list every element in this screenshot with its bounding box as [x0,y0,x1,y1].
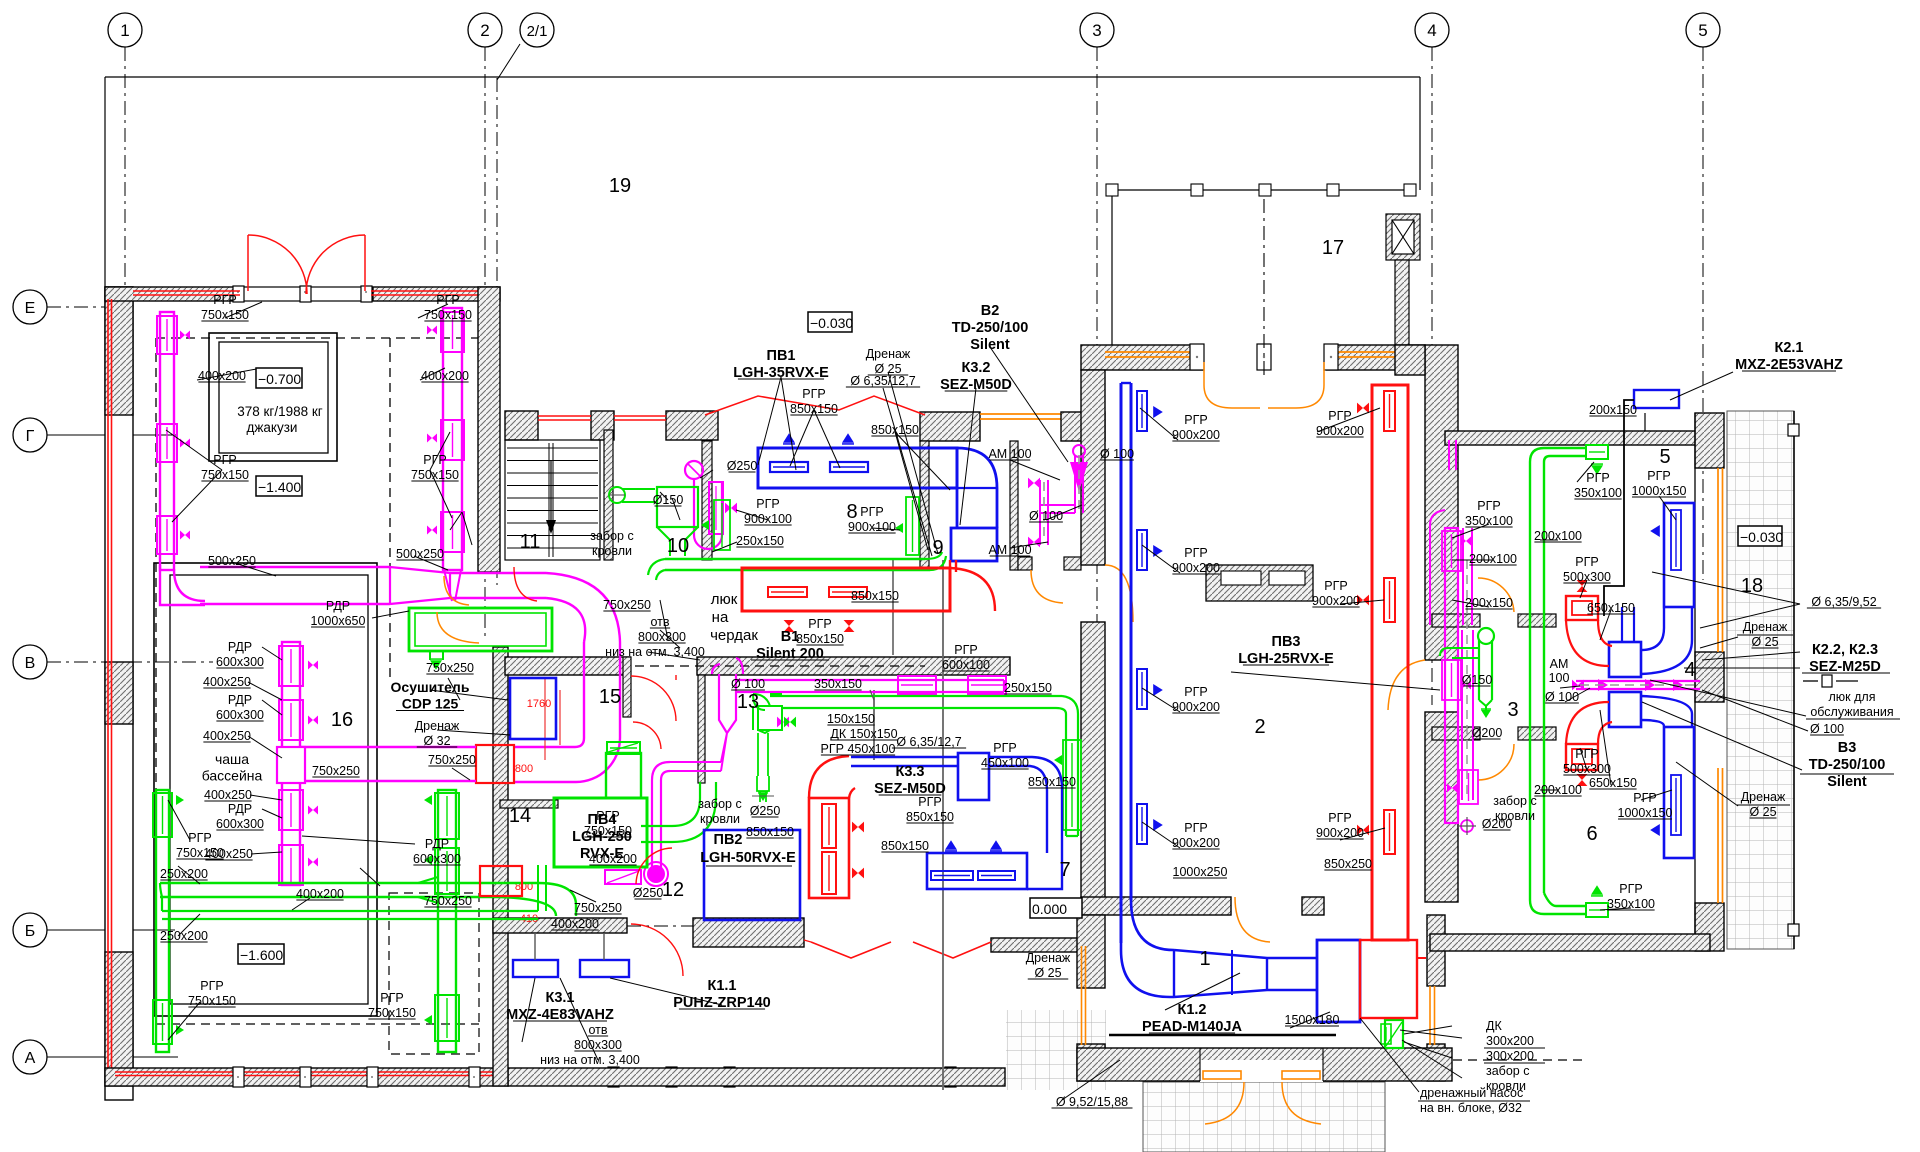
svg-text:Ø 25: Ø 25 [1034,966,1061,980]
green duct above ПВ4 [606,753,641,798]
svg-text:850x250: 850x250 [1324,857,1372,871]
hall right wall [1425,345,1458,660]
svg-text:ПВ4: ПВ4 [588,812,617,828]
magenta trunk elbow bottom left [160,565,205,605]
tiled terrace right [1727,411,1794,949]
room1 bottom wall band [1077,1048,1452,1081]
red door arc near wall 2/1 [514,567,537,601]
orange door arc corridor [1031,570,1063,603]
axis А [13,1040,47,1074]
fire damper red box on green [480,866,522,896]
svg-text:люк для: люк для [1829,690,1876,704]
svg-text:1500x180: 1500x180 [1285,1013,1340,1027]
svg-text:100: 100 [1549,671,1570,685]
svg-text:Дренаж: Дренаж [866,347,911,361]
magenta elbow to left [514,738,620,782]
svg-text:450x100: 450x100 [981,756,1029,770]
door opening dashdot [627,925,693,927]
fire damper red box 800 [476,745,514,783]
green left elbow room10 [648,559,665,580]
svg-text:1000x650: 1000x650 [311,614,366,628]
svg-text:Ø 25: Ø 25 [1751,635,1778,649]
right block interior walls [1432,614,1480,627]
blue outdoor units bottom K3.1 [513,960,558,977]
magenta trunk horizontal 500x250 [200,566,390,568]
svg-text:РГР: РГР [200,979,223,993]
svg-text:850x150: 850x150 [1028,775,1076,789]
svg-text:750x250: 750x250 [424,894,472,908]
magenta right duct transition to trunk [444,570,461,601]
svg-text:750x150: 750x150 [201,468,249,482]
axis 2/1 [496,78,498,585]
colonnade row 17 [1108,189,1416,191]
dashed line right of room1 [1453,1059,1585,1061]
svg-text:ПВ3: ПВ3 [1272,634,1301,650]
blue duct room9 down [951,528,997,561]
svg-text:Ø 32: Ø 32 [423,734,450,748]
axis E [13,290,47,324]
middle top windows orange [980,413,1061,415]
axis 2 [484,47,486,640]
svg-text:350x100: 350x100 [1574,486,1622,500]
axis 1 [124,47,126,1085]
blue К3.3 system room7 [851,757,958,766]
magenta room10 round duct O250 [685,461,703,479]
svg-text:РГР: РГР [1647,469,1670,483]
svg-text:4: 4 [1427,21,1436,40]
svg-text:Ø200: Ø200 [1472,726,1503,740]
svg-text:ПВ2: ПВ2 [714,832,743,848]
blue K2.1 outdoor unit [1634,390,1679,408]
svg-text:400x250: 400x250 [203,729,251,743]
svg-text:150x150: 150x150 [827,712,875,726]
svg-text:люк: люк [711,591,738,608]
wall between pool and rooms14/15 [493,647,508,1086]
svg-text:850x150: 850x150 [790,402,838,416]
green horizontal 400x200 [160,882,500,884]
svg-text:РГР: РГР [213,453,236,467]
svg-text:1000x150: 1000x150 [1618,806,1673,820]
svg-text:РГР: РГР [1477,499,1500,513]
svg-text:900x200: 900x200 [1172,561,1220,575]
svg-text:РГР: РГР [993,741,1016,755]
svg-text:500x250: 500x250 [396,547,444,561]
entrance double door red arcs [247,235,249,291]
magenta horizontal 750x250 pool [300,746,476,748]
svg-text:800: 800 [515,763,533,775]
svg-text:750x150: 750x150 [368,1006,416,1020]
pool right wall upper [478,287,500,572]
svg-text:РГР: РГР [860,505,883,519]
fireplace [1206,565,1313,601]
svg-text:800x300: 800x300 [638,630,686,644]
orange door arcs rooms3 [1478,578,1514,612]
svg-text:LGH-250: LGH-250 [572,829,632,845]
attic dashed boundary pool [156,337,478,339]
magenta round intake [647,865,665,883]
svg-text:К2.1: К2.1 [1774,340,1803,356]
hall left wall [1081,370,1105,565]
svg-text:400x250: 400x250 [203,675,251,689]
svg-text:бассейна: бассейна [202,768,263,784]
green room 8 low horizontal [665,558,925,560]
svg-text:Б: Б [25,923,36,940]
svg-text:600x300: 600x300 [216,655,264,669]
magenta elbow down room12 [652,762,670,869]
right block top wall [1445,431,1707,445]
svg-text:РГР: РГР [1328,811,1351,825]
svg-text:чердак: чердак [710,627,758,644]
svg-text:250x200: 250x200 [160,867,208,881]
green transition small [418,877,438,903]
svg-text:РГР: РГР [436,293,459,307]
svg-text:TD-250/100: TD-250/100 [952,320,1029,336]
grey pipes to units [534,933,536,960]
svg-text:кровли: кровли [592,544,632,558]
middle bottom wall [493,918,627,933]
svg-text:низ на отм. 3,400: низ на отм. 3,400 [540,1053,640,1067]
svg-text:400x200: 400x200 [198,369,246,383]
svg-text:на вн. блоке, Ø32: на вн. блоке, Ø32 [1420,1101,1522,1115]
axis Б [13,913,47,947]
svg-text:РГР: РГР [188,831,211,845]
svg-text:РГР: РГР [954,643,977,657]
dashed line rooms 15/13 [635,665,925,667]
svg-text:РГР: РГР [1328,409,1351,423]
svg-text:Silent: Silent [970,337,1010,353]
svg-text:400x250: 400x250 [204,788,252,802]
svg-text:200x150: 200x150 [1589,403,1637,417]
green duct down room13 [757,733,769,802]
svg-text:забор с: забор с [1486,1064,1529,1078]
room1 left wall piers + orange window [1077,915,1105,988]
green room13 assembly [753,694,765,730]
svg-text:16: 16 [331,709,353,731]
svg-text:750x150: 750x150 [176,846,224,860]
jacuzzi labels [256,368,302,388]
pool bottom wall [105,1068,508,1086]
svg-text:17: 17 [1322,237,1344,259]
svg-text:РГР: РГР [1633,791,1656,805]
svg-text:CDP 125: CDP 125 [402,696,459,712]
svg-text:В: В [25,655,36,672]
tiled terrace bottom (room1) [1143,1082,1385,1152]
svg-text:650x150: 650x150 [1589,776,1637,790]
svg-text:750x250: 750x250 [603,598,651,612]
orange window lines hall top [1105,351,1197,353]
svg-text:РДР: РДР [228,693,252,707]
magenta left vertical duct pool [160,312,174,570]
svg-text:18: 18 [1741,575,1763,597]
svg-text:Silent: Silent [1827,774,1867,790]
svg-text:В3: В3 [1838,740,1857,756]
svg-text:−0.700: −0.700 [258,371,301,387]
svg-text:Ø250: Ø250 [633,886,664,900]
magenta vertical duct room13 [719,674,736,733]
svg-text:АМ 100: АМ 100 [988,543,1031,557]
svg-text:Дренаж: Дренаж [1743,620,1788,634]
wall 9/corridor [1010,441,1018,570]
red elbow B1 [950,560,995,611]
blue bottom grille box room7 [927,853,1027,889]
svg-text:750x150: 750x150 [411,468,459,482]
svg-text:на: на [712,609,729,626]
svg-text:РДР: РДР [326,599,350,613]
svg-text:TD-250/100: TD-250/100 [1809,757,1886,773]
door centerline dashdot [1263,199,1265,378]
orange door arcs hall top [1204,362,1260,408]
svg-text:750x250: 750x250 [426,661,474,675]
blue elbow room1 [1121,900,1174,997]
svg-text:LGH-50RVX-E: LGH-50RVX-E [700,850,796,866]
svg-text:900x100: 900x100 [744,512,792,526]
dashed box green zone [389,893,479,1054]
magenta small risers right block [1449,440,1456,470]
svg-text:РДР: РДР [425,837,449,851]
orange door arc hall right [1388,660,1425,710]
svg-text:кровли: кровли [700,812,740,826]
svg-text:500x300: 500x300 [1563,570,1611,584]
hall bottom wall [1081,897,1231,915]
svg-text:250x150: 250x150 [736,534,784,548]
blue hall duct K1.2 [1120,383,1123,943]
orange door arc near green box [437,612,479,643]
svg-text:800x300: 800x300 [574,1038,622,1052]
red B1 duct room8 [742,568,950,611]
svg-text:Ø 100: Ø 100 [1100,447,1134,461]
svg-text:РДР: РДР [228,802,252,816]
svg-text:378 кг/1988 кг: 378 кг/1988 кг [237,404,323,419]
svg-text:АМ: АМ [1550,657,1569,671]
green left vertical duct pool [156,790,169,1052]
svg-text:отв: отв [588,1023,607,1037]
blue transition room1 [1174,950,1317,997]
blue K1.2 unit box [1317,940,1360,1022]
room1 right wall piers + orange window [1427,915,1445,986]
magenta elbow down [546,573,620,642]
orange windows right wall [1717,468,1719,652]
svg-text:отв: отв [650,615,669,629]
svg-text:−1.600: −1.600 [240,947,283,963]
svg-text:забор с: забор с [590,529,633,543]
svg-text:300x200: 300x200 [1486,1049,1534,1063]
svg-text:15: 15 [599,686,621,708]
hall left wall orange door arc [1105,565,1133,622]
svg-text:Ø 6,35/12,7: Ø 6,35/12,7 [850,374,915,388]
orange door sill bars [1203,1071,1241,1079]
svg-text:Ø 100: Ø 100 [731,677,765,691]
middle top wall [505,411,538,440]
svg-text:РГР: РГР [213,293,236,307]
red roof zigzag [705,396,925,415]
svg-text:1000x150: 1000x150 [1632,484,1687,498]
blue right block upper unit [1664,503,1694,607]
svg-text:РГР: РГР [1619,882,1642,896]
svg-text:2/1: 2/1 [527,23,548,40]
magenta right block vertical duct [1445,528,1458,823]
magenta funnel horizontal room12 [670,733,727,771]
red lines left wall [107,299,109,1068]
grey overlay on AM line [1580,684,1700,686]
column with X brace [1386,214,1420,260]
осушитель unit blue [510,678,556,739]
wall 15/14 [500,800,558,808]
svg-text:ДК 150x150: ДК 150x150 [830,727,897,741]
svg-text:А: А [25,1050,36,1067]
AM100 corridor assembly [1040,480,1048,545]
magenta vertical grey composite left of room3 [1466,560,1468,800]
svg-text:11: 11 [520,531,541,553]
svg-text:200x100: 200x100 [1534,783,1582,797]
svg-text:3: 3 [1507,699,1518,721]
svg-text:РГР: РГР [1324,579,1347,593]
ПВ2 unit blue box [704,830,800,920]
magenta thin duct 350x150 run [736,679,1004,681]
svg-text:350x150: 350x150 [814,677,862,691]
svg-text:К3.2: К3.2 [961,360,990,376]
svg-text:Ø 25: Ø 25 [1749,805,1776,819]
svg-text:650x150: 650x150 [1587,601,1635,615]
svg-text:10: 10 [667,535,689,557]
svg-text:Ø250: Ø250 [727,459,758,473]
green room8 right elbow [925,552,946,570]
magenta center distribution duct [282,642,300,885]
svg-text:200x150: 200x150 [1465,596,1513,610]
red window lines top wall [133,290,240,292]
svg-text:РГР: РГР [1184,546,1207,560]
svg-text:600x300: 600x300 [216,708,264,722]
svg-text:14: 14 [509,805,531,827]
blue right block lower unit [1664,727,1694,858]
svg-text:1: 1 [120,21,129,40]
svg-text:РГР: РГР [1586,471,1609,485]
svg-text:К1.1: К1.1 [707,978,736,994]
svg-text:19: 19 [609,175,631,197]
rooms bottom wall y657 [505,657,630,675]
bottom wall right part under room7 [508,1068,1005,1086]
svg-text:Ø200: Ø200 [1482,817,1513,831]
green riser down room7 [1066,714,1078,836]
svg-text:Ø 100: Ø 100 [1545,690,1579,704]
blue elbows K2 [1641,608,1692,674]
svg-text:1000x250: 1000x250 [1173,865,1228,879]
svg-text:РГР: РГР [1184,821,1207,835]
jacuzzi [209,333,337,461]
svg-text:Дренаж: Дренаж [1741,790,1786,804]
svg-text:Осушитель: Осушитель [391,679,470,695]
red vertical duct room7 [809,798,849,898]
svg-text:−1.400: −1.400 [258,479,301,495]
svg-text:ДК: ДК [1486,1019,1502,1033]
stairs room 11 [505,440,600,560]
svg-text:750x250: 750x250 [312,764,360,778]
svg-text:600x300: 600x300 [413,852,461,866]
black refrigerant line K2.1 [1604,400,1634,616]
svg-text:РГР: РГР [756,497,779,511]
svg-text:850x150: 850x150 [906,810,954,824]
svg-text:3: 3 [1092,21,1101,40]
svg-text:750x150: 750x150 [188,994,236,1008]
svg-text:250x200: 250x200 [160,929,208,943]
svg-text:В2: В2 [981,303,1000,319]
ПВ4 magenta bottom grille [605,870,641,884]
svg-text:0.000: 0.000 [1032,901,1067,917]
magenta right vertical duct pool [443,308,462,570]
svg-text:Г: Г [26,428,35,445]
wall 11/10 [604,430,613,560]
svg-text:забор с: забор с [1493,794,1536,808]
svg-text:Дренаж: Дренаж [415,719,460,733]
svg-text:350x100: 350x100 [1607,897,1655,911]
svg-text:2: 2 [1254,716,1265,738]
svg-text:АМ 100: АМ 100 [988,447,1031,461]
svg-text:750x150: 750x150 [201,308,249,322]
red hall vertical duct [1372,385,1408,940]
green horizontal 250x200 [162,910,480,912]
magenta vertical duct room15 [583,642,585,738]
green grille room8 left [714,500,730,550]
green small assembly room3 [1479,640,1492,700]
svg-text:Ø 6,35/12,7: Ø 6,35/12,7 [896,735,961,749]
corridor bottom wall [1018,557,1032,570]
red elbow room7 top [809,756,855,798]
axis В [13,645,47,679]
svg-text:ПВ1: ПВ1 [767,348,796,364]
svg-text:низ на отм. 3,400: низ на отм. 3,400 [605,645,705,659]
svg-text:900x200: 900x200 [1172,836,1220,850]
green 250x150 run room13->room6 riser [770,695,1062,697]
svg-text:кровли: кровли [1486,1079,1526,1093]
magenta ducts room3 area [1463,528,1472,625]
svg-text:1760: 1760 [527,698,551,710]
red right block lower assembly [1566,744,1598,770]
hall top wall door gap [1203,344,1326,371]
right block right wall piers [1695,413,1724,468]
svg-text:Е: Е [25,300,36,317]
svg-text:500x300: 500x300 [1563,762,1611,776]
middle top windows red [538,415,591,417]
svg-text:джакузи: джакузи [247,420,298,435]
orange door arcs room1 bottom [1205,1082,1244,1124]
magenta AM line rooms4 [1576,680,1700,682]
blue elbow room8->9 [957,448,997,528]
svg-text:−0.030: −0.030 [1740,529,1783,545]
svg-text:РГР: РГР [808,617,831,631]
svg-text:350x100: 350x100 [1465,514,1513,528]
svg-text:900x100: 900x100 [848,520,896,534]
axis 5 [1702,47,1704,580]
hall top wall [1081,345,1425,370]
svg-text:200x100: 200x100 [1469,552,1517,566]
svg-text:7: 7 [1059,859,1070,881]
wall 8/9 [920,441,929,570]
svg-text:400x200: 400x200 [296,887,344,901]
svg-text:900x200: 900x200 [1172,428,1220,442]
svg-text:400x200: 400x200 [421,369,469,383]
svg-text:200x100: 200x100 [1534,529,1582,543]
svg-text:РГР: РГР [423,453,446,467]
svg-text:К3.1: К3.1 [545,990,574,1006]
green room10/11 intake assembly [622,489,655,502]
svg-text:К3.3: К3.3 [895,764,924,780]
svg-text:5: 5 [1698,21,1707,40]
top wall window posts [233,286,244,302]
svg-text:RVX-E: RVX-E [580,846,624,862]
svg-text:300x200: 300x200 [1486,1034,1534,1048]
svg-text:13: 13 [737,691,759,713]
red door arc room15 [631,676,676,721]
svg-text:РГР: РГР [1575,555,1598,569]
